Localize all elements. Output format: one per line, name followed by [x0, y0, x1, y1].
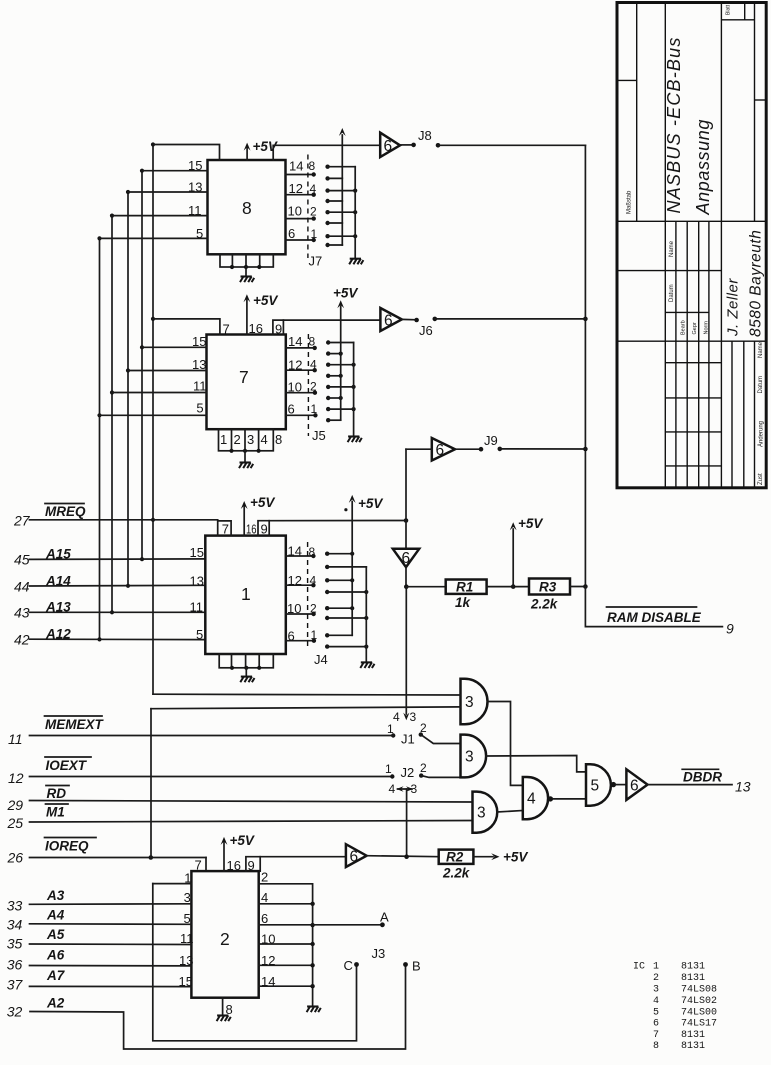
wire RAM DISABLE: [585, 587, 722, 627]
svg-text:A7: A7: [46, 968, 66, 983]
node junction J9 input: [404, 518, 409, 523]
signal A12 label pin 42: [14, 627, 71, 648]
ground J5: [348, 437, 362, 443]
wire IC U7 pin9 to J6 buffer: [273, 320, 381, 334]
resistor R2 2.2k: [439, 850, 474, 881]
wire IOEXT: [30, 776, 393, 778]
svg-text:4: 4: [389, 782, 396, 796]
wire IC U7 pin7 top to MREQ bus: [153, 319, 220, 335]
svg-text:RAM DISABLE: RAM DISABLE: [607, 610, 702, 625]
signal A4 label pin 34: [7, 908, 65, 933]
svg-text:10: 10: [288, 204, 302, 219]
wire IOREQ branch to gate 3a input 2: [151, 707, 461, 858]
resistor R3 2.2k: [529, 579, 570, 612]
svg-text:14: 14: [288, 334, 302, 349]
svg-text:+5V: +5V: [333, 286, 358, 301]
buffer 6 at IC U2 pin9: [260, 844, 366, 867]
svg-text:2: 2: [310, 205, 317, 219]
wire MREQ: [30, 519, 218, 521]
svg-text:4: 4: [310, 182, 317, 196]
svg-text:4: 4: [261, 432, 268, 447]
svg-text:8: 8: [242, 198, 252, 218]
signal A2 label pin 32: [7, 996, 65, 1020]
svg-text:A3: A3: [46, 888, 65, 903]
buffer 6 at J8: [380, 133, 400, 157]
signal A13 label pin 43: [14, 600, 71, 621]
svg-text:2: 2: [310, 602, 317, 616]
svg-text:R3: R3: [539, 580, 557, 595]
svg-text:6: 6: [653, 1019, 659, 1030]
gate 4 NOR: [523, 777, 553, 819]
pin label 9 tab IC U1: [261, 521, 407, 537]
wire IC U2 pin9 tab: [246, 857, 260, 873]
svg-text:Datum: Datum: [758, 376, 764, 394]
svg-text:2.2k: 2.2k: [442, 866, 471, 881]
svg-text:1: 1: [311, 628, 318, 642]
IC U7 right pin wires: [286, 334, 318, 417]
wire gate 3c output to gate 4 input 2: [497, 811, 523, 813]
wire J9 to right bus: [500, 448, 586, 450]
jumper J4 dashed line: [308, 542, 328, 667]
svg-text:4: 4: [261, 890, 268, 905]
svg-text:35: 35: [7, 936, 23, 952]
IC U7 left pin wires: [100, 334, 207, 415]
wire A4: [30, 911, 192, 926]
wire J6 to right bus: [435, 318, 586, 320]
signal MREQ label pin 27: [13, 504, 86, 529]
svg-text:12: 12: [288, 358, 302, 373]
wire IOREQ to IC U2 pin7: [30, 855, 207, 871]
wire J9 buffer input vertical: [405, 449, 407, 520]
svg-text:Maßstab: Maßstab: [627, 190, 633, 214]
signal IOREQ label pin 26: [7, 838, 97, 866]
svg-text:6: 6: [288, 628, 295, 643]
svg-text:9: 9: [261, 522, 268, 537]
svg-text:6: 6: [288, 226, 295, 241]
pin label 9 tab IC U7: [275, 320, 283, 336]
svg-text:32: 32: [7, 1004, 23, 1020]
svg-text:7: 7: [222, 522, 229, 537]
power +5V line of J7: [339, 128, 346, 245]
svg-text:8580 Bayreuth: 8580 Bayreuth: [748, 230, 765, 337]
svg-text:RD: RD: [47, 786, 67, 801]
svg-text:4: 4: [393, 710, 400, 724]
signal A7 label pin 37: [7, 968, 66, 993]
svg-text:14: 14: [261, 974, 275, 989]
svg-text:J8: J8: [418, 128, 432, 143]
svg-text:6: 6: [630, 778, 639, 795]
svg-text:74LS00: 74LS00: [681, 1008, 717, 1019]
svg-text:37: 37: [7, 977, 24, 993]
power +5V line of J5: [333, 286, 358, 421]
svg-text:34: 34: [7, 917, 23, 933]
svg-text:26: 26: [7, 850, 24, 866]
svg-text:15: 15: [190, 545, 204, 560]
svg-text:Name: Name: [669, 240, 675, 257]
title block small labels: [627, 4, 765, 485]
svg-text:A2: A2: [46, 996, 65, 1011]
jumper J1 pins 4 3 labels: [393, 710, 417, 724]
svg-text:13: 13: [192, 357, 206, 372]
svg-text:B: B: [412, 959, 421, 974]
power +5V at IC U2 pin16: [221, 833, 255, 873]
gate 5 NAND: [586, 764, 616, 805]
svg-text:16: 16: [227, 858, 241, 873]
svg-text:10: 10: [287, 601, 301, 616]
svg-text:12: 12: [288, 573, 302, 588]
svg-text:12: 12: [8, 770, 24, 786]
jumper J5 ladder: [326, 340, 356, 422]
svg-text:5: 5: [184, 911, 191, 926]
IC U7 body: [207, 335, 286, 430]
svg-text:2: 2: [220, 929, 230, 949]
svg-text:DBDR: DBDR: [683, 770, 722, 785]
signal A3 label pin 33: [7, 888, 65, 914]
svg-text:1: 1: [241, 584, 251, 604]
svg-text:16: 16: [246, 522, 257, 537]
svg-text:11: 11: [180, 931, 194, 946]
wire J2 pin2 to gate 3b: [421, 776, 460, 778]
svg-text:12: 12: [261, 953, 275, 968]
svg-text:+5V: +5V: [503, 850, 528, 865]
svg-text:3: 3: [477, 805, 486, 822]
svg-text:3: 3: [184, 890, 191, 905]
ground IC U2 right collector: [307, 1007, 321, 1013]
signal A5 label pin 35: [7, 927, 65, 952]
wire A2 to jumper J3 pin B: [30, 965, 406, 1050]
svg-text:7: 7: [223, 322, 230, 337]
svg-text:14: 14: [289, 159, 303, 174]
IC U1 bottom tabs: [219, 654, 273, 670]
wire MEMEXT: [30, 735, 394, 737]
wire gate 3a output to gate 4: [488, 702, 523, 786]
svg-text:11: 11: [188, 203, 202, 218]
svg-text:1: 1: [311, 227, 318, 241]
svg-text:J2: J2: [401, 765, 415, 780]
wire IC U1 pin9: [258, 521, 269, 536]
svg-text:MEMEXT: MEMEXT: [45, 717, 105, 732]
svg-text:14: 14: [288, 544, 302, 559]
ground IC U1: [240, 668, 254, 682]
svg-text:MREQ: MREQ: [45, 504, 86, 519]
svg-text:2: 2: [420, 761, 427, 775]
wire A15 bus vertical: [141, 171, 143, 560]
wire pin1 loop to jumper J3 pin C: [153, 884, 357, 1041]
svg-text:12: 12: [289, 181, 303, 196]
svg-text:Gepr: Gepr: [692, 322, 698, 334]
wire A12: [30, 638, 206, 640]
pin label 7 tab IC U1: [218, 521, 231, 537]
svg-text:C: C: [344, 958, 353, 973]
gate 3b AND: [461, 735, 487, 778]
IC U1 body: [205, 536, 285, 654]
svg-text:Norm: Norm: [704, 321, 710, 335]
svg-text:NASBUS -ECB-Bus: NASBUS -ECB-Bus: [664, 36, 684, 213]
IC U7 bottom tabs with pin numbers: [219, 429, 283, 453]
wire A13: [30, 611, 206, 613]
signal MEMEXT label pin 11: [8, 716, 105, 747]
svg-text:43: 43: [14, 605, 30, 621]
svg-text:5: 5: [196, 400, 203, 415]
svg-text:33: 33: [7, 898, 23, 914]
wire IC U8 pin9 to J8 buffer: [273, 145, 380, 160]
svg-text:1k: 1k: [455, 595, 472, 610]
svg-text:8131: 8131: [681, 962, 705, 973]
svg-text:+5V: +5V: [358, 496, 383, 511]
svg-text:74LS08: 74LS08: [681, 985, 717, 996]
ground IC U7: [239, 451, 253, 468]
wire A6: [30, 953, 194, 968]
inverter 6 DBDR: [626, 769, 647, 800]
signal A6 label pin 36: [7, 948, 65, 973]
jumper J2 pins 4 3 with arrows: [389, 782, 418, 796]
jumper J7 ladder: [325, 165, 357, 248]
svg-text:11: 11: [8, 731, 23, 747]
svg-text:15: 15: [179, 974, 193, 989]
wire A7: [30, 974, 193, 989]
svg-text:7: 7: [195, 858, 202, 873]
wire J4 ground line: [365, 567, 367, 662]
wire buffer to R2: [367, 854, 439, 859]
svg-text:3: 3: [653, 985, 659, 996]
svg-text:9: 9: [726, 621, 734, 637]
wire right bus vertical: [583, 145, 588, 586]
IC U2 body: [191, 871, 258, 998]
svg-text:A4: A4: [46, 908, 65, 923]
svg-text:2.2k: 2.2k: [530, 597, 559, 612]
svg-text:29: 29: [7, 797, 24, 813]
wire A14: [30, 584, 206, 587]
wire J2 pin3 down to R2 line: [406, 789, 408, 857]
svg-text:Blatt: Blatt: [726, 4, 732, 15]
signal IOEXT label pin 12: [8, 757, 91, 786]
svg-text:2: 2: [234, 432, 241, 447]
node bus dots IC7: [151, 317, 155, 321]
svg-text:1: 1: [220, 432, 227, 447]
inverter 6 down-pointing: [393, 521, 419, 587]
svg-text:8: 8: [309, 545, 316, 559]
svg-text:13: 13: [179, 953, 193, 968]
jumper J2: [385, 761, 427, 780]
jumper J9: [455, 433, 502, 452]
wire DBDR output: [648, 784, 733, 786]
svg-text:7: 7: [653, 1030, 659, 1041]
buffer 6 at J9: [406, 438, 455, 461]
ground J4: [360, 662, 374, 668]
svg-text:IOEXT: IOEXT: [46, 758, 88, 773]
svg-text:5: 5: [591, 778, 600, 795]
svg-text:3: 3: [411, 782, 418, 796]
jumper J5 dashed line: [308, 334, 325, 443]
svg-text:IOREQ: IOREQ: [45, 839, 89, 854]
svg-text:J. Zeller: J. Zeller: [725, 278, 742, 337]
svg-text:42: 42: [14, 632, 30, 648]
wire A12 bus vertical: [99, 238, 101, 639]
wire inverter output down to jumper J1 pins 4-3: [403, 587, 409, 721]
svg-text:3: 3: [410, 710, 417, 724]
title block frame: [617, 3, 766, 488]
wire gate 4 output to gate 5 input 2: [553, 798, 586, 800]
svg-text:8: 8: [275, 432, 282, 447]
signal A14 label pin 44: [14, 574, 71, 595]
gate 3c AND: [473, 792, 498, 833]
power +5V line of J4: [344, 495, 383, 635]
wire M1: [30, 821, 473, 823]
svg-text:8131: 8131: [681, 1041, 705, 1052]
wire gate 5 output to inverter: [616, 784, 626, 786]
svg-text:9: 9: [275, 322, 282, 337]
ground J7: [349, 259, 363, 265]
IC U2 right pin wires: [259, 870, 315, 1007]
wire MREQ branch to gate 3a input 1: [153, 693, 461, 696]
svg-text:R1: R1: [456, 580, 473, 595]
title text NASBUS ECB-Bus Anpassung: [664, 36, 713, 215]
svg-text:J9: J9: [484, 433, 498, 448]
power +5V at IC U8 pin16: [244, 139, 278, 160]
svg-text:+5V: +5V: [253, 293, 278, 308]
svg-text:J3: J3: [372, 946, 386, 961]
svg-text:2: 2: [310, 380, 317, 394]
node R1 junction: [404, 584, 409, 589]
svg-text:8131: 8131: [681, 1030, 705, 1041]
author J. Zeller 8580 Bayreuth: [725, 230, 765, 337]
svg-text:J4: J4: [314, 652, 328, 667]
svg-text:6: 6: [436, 442, 445, 459]
wire A3: [30, 890, 192, 905]
power +5V pull-up at R1 R3 node: [510, 516, 544, 589]
wire J1 pin2 to gate 3b: [421, 735, 461, 744]
svg-text:1: 1: [184, 871, 191, 886]
svg-text:11: 11: [190, 600, 204, 615]
svg-text:1: 1: [653, 962, 659, 973]
wire R3 to bus node: [570, 586, 585, 588]
svg-text:Änderung: Änderung: [758, 421, 765, 447]
svg-text:8131: 8131: [681, 973, 705, 984]
resistor R1 1k: [446, 580, 487, 611]
signal RD label pin 29: [7, 786, 70, 814]
svg-text:3: 3: [465, 694, 474, 711]
svg-text:25: 25: [7, 815, 24, 831]
svg-text:6: 6: [384, 313, 393, 330]
wire gate 3b output to gate 5 input 1: [486, 756, 586, 772]
svg-text:13: 13: [190, 574, 204, 589]
svg-text:+5V: +5V: [230, 833, 255, 848]
wire MREQ bus vertical: [152, 145, 154, 695]
svg-text:74LS17: 74LS17: [681, 1019, 717, 1030]
parts list: [633, 962, 717, 1053]
svg-text:J7: J7: [309, 254, 323, 269]
svg-text:2: 2: [261, 870, 268, 885]
IC U1 left pin labels: [190, 545, 204, 642]
svg-text:44: 44: [14, 579, 30, 595]
jumper J7 dashed line: [308, 155, 322, 269]
svg-text:Zust: Zust: [758, 473, 764, 485]
svg-text:15: 15: [192, 334, 206, 349]
svg-text:4: 4: [653, 996, 659, 1007]
svg-text:5: 5: [196, 627, 203, 642]
svg-text:J5: J5: [312, 428, 326, 443]
IC U2 pin1 wire to loop: [153, 871, 192, 886]
node bus bottom junction: [583, 584, 588, 589]
svg-text:M1: M1: [46, 805, 65, 820]
svg-text:6: 6: [350, 849, 359, 866]
svg-text:A6: A6: [46, 948, 65, 963]
svg-text:8: 8: [309, 159, 316, 173]
signal M1 label pin 25: [7, 804, 69, 831]
IC U8 bottom tabs: [220, 254, 273, 269]
jumper J6: [402, 317, 437, 338]
svg-text:Datum: Datum: [669, 284, 675, 302]
jumper J4 ladder: [325, 552, 368, 649]
svg-text:13: 13: [735, 779, 751, 795]
svg-text:1: 1: [385, 762, 392, 776]
wire to R1: [406, 586, 445, 588]
svg-text:J1: J1: [401, 732, 415, 747]
wire J7 ground line: [354, 167, 356, 259]
svg-text:8: 8: [309, 335, 316, 349]
svg-text:+5V: +5V: [518, 516, 543, 531]
svg-text:15: 15: [188, 158, 202, 173]
svg-text:9: 9: [248, 858, 255, 873]
IC U8 right pin wires: [286, 159, 318, 243]
wire A13 bus vertical: [111, 216, 113, 613]
wire J5 ground line: [353, 343, 355, 437]
svg-text:+5V: +5V: [250, 495, 275, 510]
svg-text:4: 4: [310, 358, 317, 372]
svg-text:Anpassung: Anpassung: [693, 119, 713, 215]
svg-text:A: A: [380, 910, 389, 925]
wire A5: [30, 931, 194, 946]
jumper J8: [400, 128, 440, 148]
power +5V at IC U1 pin16: [241, 495, 276, 537]
svg-text:5: 5: [196, 226, 203, 241]
svg-text:2: 2: [653, 973, 659, 984]
svg-text:1: 1: [311, 402, 318, 416]
wire R1 to R3: [487, 586, 529, 588]
wire J8 to right bus: [438, 144, 585, 146]
wire A15: [30, 558, 206, 561]
svg-text:7: 7: [239, 367, 249, 387]
wire A14 bus vertical: [127, 192, 129, 586]
wire RD: [30, 801, 473, 803]
IC U8 left pin wires: [100, 158, 208, 241]
svg-text:J6: J6: [419, 323, 433, 338]
node bus corner dots IC8: [151, 142, 155, 146]
svg-text:6: 6: [288, 402, 295, 417]
svg-text:IC: IC: [633, 962, 645, 973]
svg-text:13: 13: [188, 180, 202, 195]
ground IC U8: [240, 267, 254, 282]
svg-text:8: 8: [653, 1041, 659, 1052]
svg-text:10: 10: [261, 932, 275, 947]
IC U2 pin8 bottom: [217, 998, 233, 1021]
svg-text:A5: A5: [46, 927, 65, 942]
signal A15 label pin 45: [14, 547, 71, 568]
IC U8 body: [208, 160, 286, 254]
wire R2 to +5V arrow: [473, 850, 528, 865]
power +5V at IC U7 pin16: [244, 293, 279, 336]
svg-text:45: 45: [14, 552, 30, 568]
svg-text:27: 27: [13, 513, 31, 529]
node bus dots IC1: [151, 518, 155, 522]
gate 3a AND: [461, 679, 488, 725]
buffer 6 at J6: [380, 308, 401, 331]
jumper J3: [344, 910, 421, 974]
svg-text:4: 4: [310, 573, 317, 587]
IC U1 right pin wires: [286, 544, 318, 644]
svg-text:6: 6: [261, 911, 268, 926]
svg-text:10: 10: [288, 380, 302, 395]
